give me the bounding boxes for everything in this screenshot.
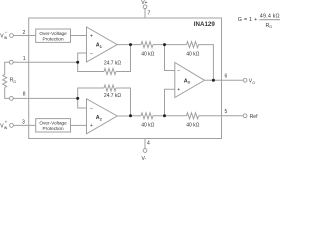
- svg-text:6: 6: [225, 73, 228, 79]
- resistor 40k bottom ref zigzag: [187, 113, 199, 119]
- svg-text:+: +: [90, 34, 93, 40]
- svg-text:IN: IN: [4, 126, 8, 130]
- junction node A3 inverting: [163, 43, 166, 46]
- svg-text:G: G: [13, 80, 16, 84]
- wire junction to A1 inverting input: [78, 53, 87, 62]
- svg-text:−: −: [5, 30, 8, 35]
- svg-text:+: +: [177, 87, 180, 93]
- resistor RG zigzag: [3, 74, 7, 87]
- terminal pin3 circle: [10, 124, 14, 128]
- wire pin8 to node A2 junction: [9, 97, 78, 99]
- junction node A1 output: [129, 43, 132, 46]
- over-voltage protection box 2: [36, 119, 71, 132]
- terminal pin1 circle: [9, 60, 13, 64]
- svg-text:V+: V+: [141, 0, 147, 6]
- wire junction up to feedback resistor A2: [78, 88, 104, 98]
- svg-text:2: 2: [100, 117, 102, 121]
- wire to node bottom: [153, 115, 187, 117]
- svg-text:1: 1: [23, 56, 26, 62]
- wire node top down to A3 inverting input: [165, 45, 175, 71]
- wire A2 output: [117, 115, 130, 117]
- svg-text:G = 1 +: G = 1 +: [238, 17, 258, 23]
- junction node A2 output: [129, 114, 132, 117]
- wire A1 node to resistor 40k top1: [131, 44, 142, 46]
- terminal pin4 circle: [143, 149, 147, 153]
- svg-text:24.7 kΩ: 24.7 kΩ: [104, 93, 122, 99]
- terminal pin6 circle: [243, 78, 247, 82]
- svg-text:+: +: [90, 123, 93, 129]
- svg-text:Protection: Protection: [43, 37, 64, 42]
- svg-text:O: O: [252, 81, 255, 85]
- resistor 24.7k A2 feedback zigzag: [104, 85, 116, 91]
- svg-text:Over-Voltage: Over-Voltage: [39, 121, 67, 126]
- svg-text:2: 2: [23, 30, 26, 36]
- wire junction down to feedback resistor A1: [78, 62, 104, 71]
- terminal pin5 circle: [243, 114, 247, 118]
- svg-text:40 kΩ: 40 kΩ: [186, 51, 199, 57]
- resistor 24.7k A1 feedback zigzag: [104, 69, 116, 75]
- wire 40k feedback to A3 output node: [199, 45, 214, 81]
- terminal pin8 circle: [9, 97, 13, 101]
- wire pin3 to over-voltage box 2: [14, 124, 36, 126]
- svg-text:8: 8: [23, 92, 26, 98]
- junction node A1 input: [76, 61, 79, 64]
- svg-text:24.7 kΩ: 24.7 kΩ: [104, 60, 122, 66]
- svg-text:Over-Voltage: Over-Voltage: [39, 31, 67, 36]
- op-amp A2 triangle: [87, 99, 118, 134]
- svg-text:40 kΩ: 40 kΩ: [141, 122, 154, 128]
- wire over-voltage box 2 to A2 + input: [71, 124, 87, 126]
- wire pin2 to over-voltage box: [14, 35, 36, 37]
- svg-text:4: 4: [147, 141, 150, 147]
- wire pin4 stub: [144, 139, 146, 149]
- svg-text:INA129: INA129: [194, 21, 216, 28]
- terminal pin7 circle: [143, 5, 147, 9]
- over-voltage protection box 1: [36, 29, 71, 42]
- svg-text:40 kΩ: 40 kΩ: [186, 122, 199, 128]
- wire to node top: [153, 44, 187, 46]
- wire 24.7k A1 to output node: [116, 45, 131, 72]
- svg-text:3: 3: [22, 120, 25, 126]
- wire junction to A2 inverting input: [78, 98, 87, 108]
- wire A3 output to pin6 terminal: [205, 79, 243, 81]
- svg-text:Protection: Protection: [43, 126, 64, 131]
- junction node A2 input: [76, 97, 79, 100]
- wire A1 output: [117, 44, 130, 46]
- svg-text:−: −: [90, 51, 93, 57]
- svg-text:40 kΩ: 40 kΩ: [141, 51, 154, 57]
- svg-text:V-: V-: [142, 156, 147, 161]
- junction node A3 non-inverting: [163, 114, 166, 117]
- svg-text:−: −: [177, 69, 180, 75]
- terminal pin2 circle: [10, 34, 14, 38]
- resistor 40k bottom input zigzag: [141, 113, 153, 119]
- wire RG bottom lead to pin8: [5, 87, 14, 98]
- wire pin1 to node A1 junction: [5, 62, 14, 74]
- wire over-voltage box 1 to A1 + input: [71, 35, 87, 37]
- svg-text:G: G: [269, 25, 272, 29]
- svg-text:IN: IN: [4, 36, 8, 40]
- wire 40k to pin5 Ref terminal: [199, 115, 243, 117]
- op-amp A3 triangle: [175, 63, 205, 98]
- junction node A3 output: [212, 79, 215, 82]
- svg-text:7: 7: [148, 11, 151, 17]
- svg-text:+: +: [5, 120, 8, 125]
- IC boundary box INA129: [29, 18, 222, 139]
- svg-text:Ref: Ref: [250, 114, 258, 120]
- svg-text:3: 3: [188, 81, 190, 85]
- op-amp A1 triangle: [87, 27, 118, 62]
- resistor 40k top input zigzag: [141, 42, 153, 48]
- svg-text:1: 1: [100, 45, 102, 49]
- svg-text:−: −: [90, 106, 93, 112]
- wire A2 node to resistor 40k bottom1: [131, 115, 142, 117]
- wire pin7 stub: [144, 9, 146, 18]
- svg-text:5: 5: [225, 109, 228, 115]
- wire node bottom up to A3 non-inverting input: [165, 89, 175, 116]
- wire 24.7k A2 to output node: [116, 88, 131, 116]
- resistor 40k top feedback zigzag: [187, 42, 199, 48]
- svg-text:49.4 kΩ: 49.4 kΩ: [260, 14, 280, 20]
